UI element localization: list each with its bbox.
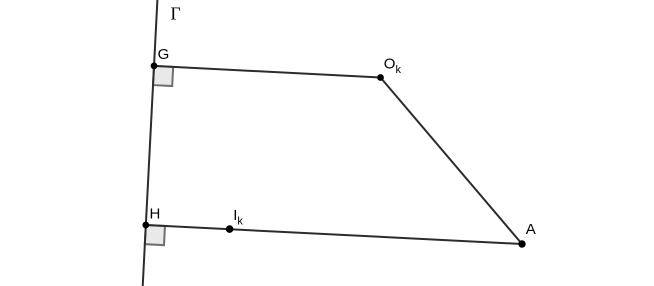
right-angle marker at H bbox=[145, 225, 165, 245]
svg-text:Γ: Γ bbox=[171, 3, 181, 23]
point Ik bbox=[226, 225, 234, 233]
point G bbox=[151, 63, 158, 70]
svg-text:G: G bbox=[158, 46, 170, 63]
segment Ok–A bbox=[381, 78, 523, 245]
segment H–A bbox=[146, 225, 522, 244]
right-angle marker at G bbox=[153, 66, 173, 86]
line Γ (through G and H) bbox=[143, 0, 158, 286]
point H bbox=[142, 222, 149, 229]
svg-text:Ik: Ik bbox=[233, 207, 243, 228]
point A bbox=[518, 240, 525, 247]
segment G–Ok bbox=[154, 66, 381, 78]
svg-text:H: H bbox=[150, 206, 161, 223]
svg-text:Ok: Ok bbox=[384, 56, 402, 77]
point Ok bbox=[377, 74, 384, 81]
svg-text:A: A bbox=[526, 221, 536, 238]
